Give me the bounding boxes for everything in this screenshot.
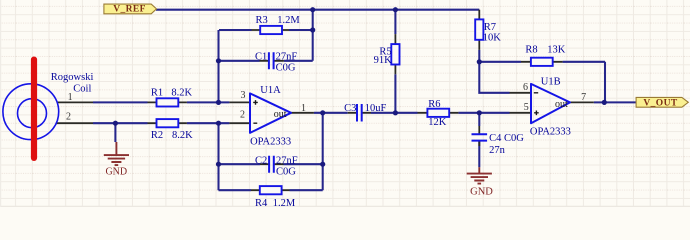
svg-text:3: 3 [241,90,246,101]
svg-text:13K: 13K [547,45,566,56]
svg-text:27nF: 27nF [276,51,298,62]
svg-text:R8: R8 [525,45,537,56]
svg-text:8.2K: 8.2K [171,88,192,99]
svg-text:27n: 27n [489,145,506,156]
svg-text:1.2M: 1.2M [273,198,296,207]
svg-text:OPA2333: OPA2333 [250,136,291,147]
svg-text:2: 2 [240,110,245,121]
svg-text:8.2K: 8.2K [172,130,193,141]
svg-text:V_OUT: V_OUT [643,98,677,108]
svg-text:12K: 12K [428,117,447,128]
svg-text:1: 1 [68,92,73,103]
svg-text:R4: R4 [255,198,268,207]
svg-text:C4 C0G: C4 C0G [489,133,524,144]
svg-text:U1A: U1A [260,85,281,96]
svg-text:R2: R2 [151,130,163,141]
svg-text:1: 1 [301,103,306,114]
svg-text:R6: R6 [428,99,440,110]
svg-text:C2: C2 [255,156,267,167]
svg-text:out: out [274,109,287,120]
svg-text:27nF: 27nF [276,156,298,167]
svg-text:1.2M: 1.2M [277,15,300,26]
svg-text:2: 2 [66,112,71,123]
svg-text:6: 6 [523,82,528,93]
svg-text:out: out [555,99,568,110]
svg-text:C0G: C0G [276,167,296,178]
svg-text:C0G: C0G [276,63,296,74]
svg-text:U1B: U1B [541,77,561,88]
svg-text:7: 7 [581,92,586,103]
svg-text:10uF: 10uF [365,103,387,114]
svg-text:V_REF: V_REF [113,5,146,15]
svg-text:OPA2333: OPA2333 [530,127,571,138]
svg-text:5: 5 [524,102,529,113]
svg-text:GND: GND [470,187,493,198]
svg-text:C3: C3 [344,103,356,114]
svg-text:C1: C1 [255,51,267,62]
svg-text:10K: 10K [483,33,502,44]
svg-text:Coil: Coil [73,84,91,95]
svg-text:R3: R3 [256,15,268,26]
svg-text:91K: 91K [374,55,393,66]
svg-text:Rogowski: Rogowski [51,72,94,83]
svg-text:R1: R1 [151,88,163,99]
svg-text:GND: GND [105,166,127,177]
